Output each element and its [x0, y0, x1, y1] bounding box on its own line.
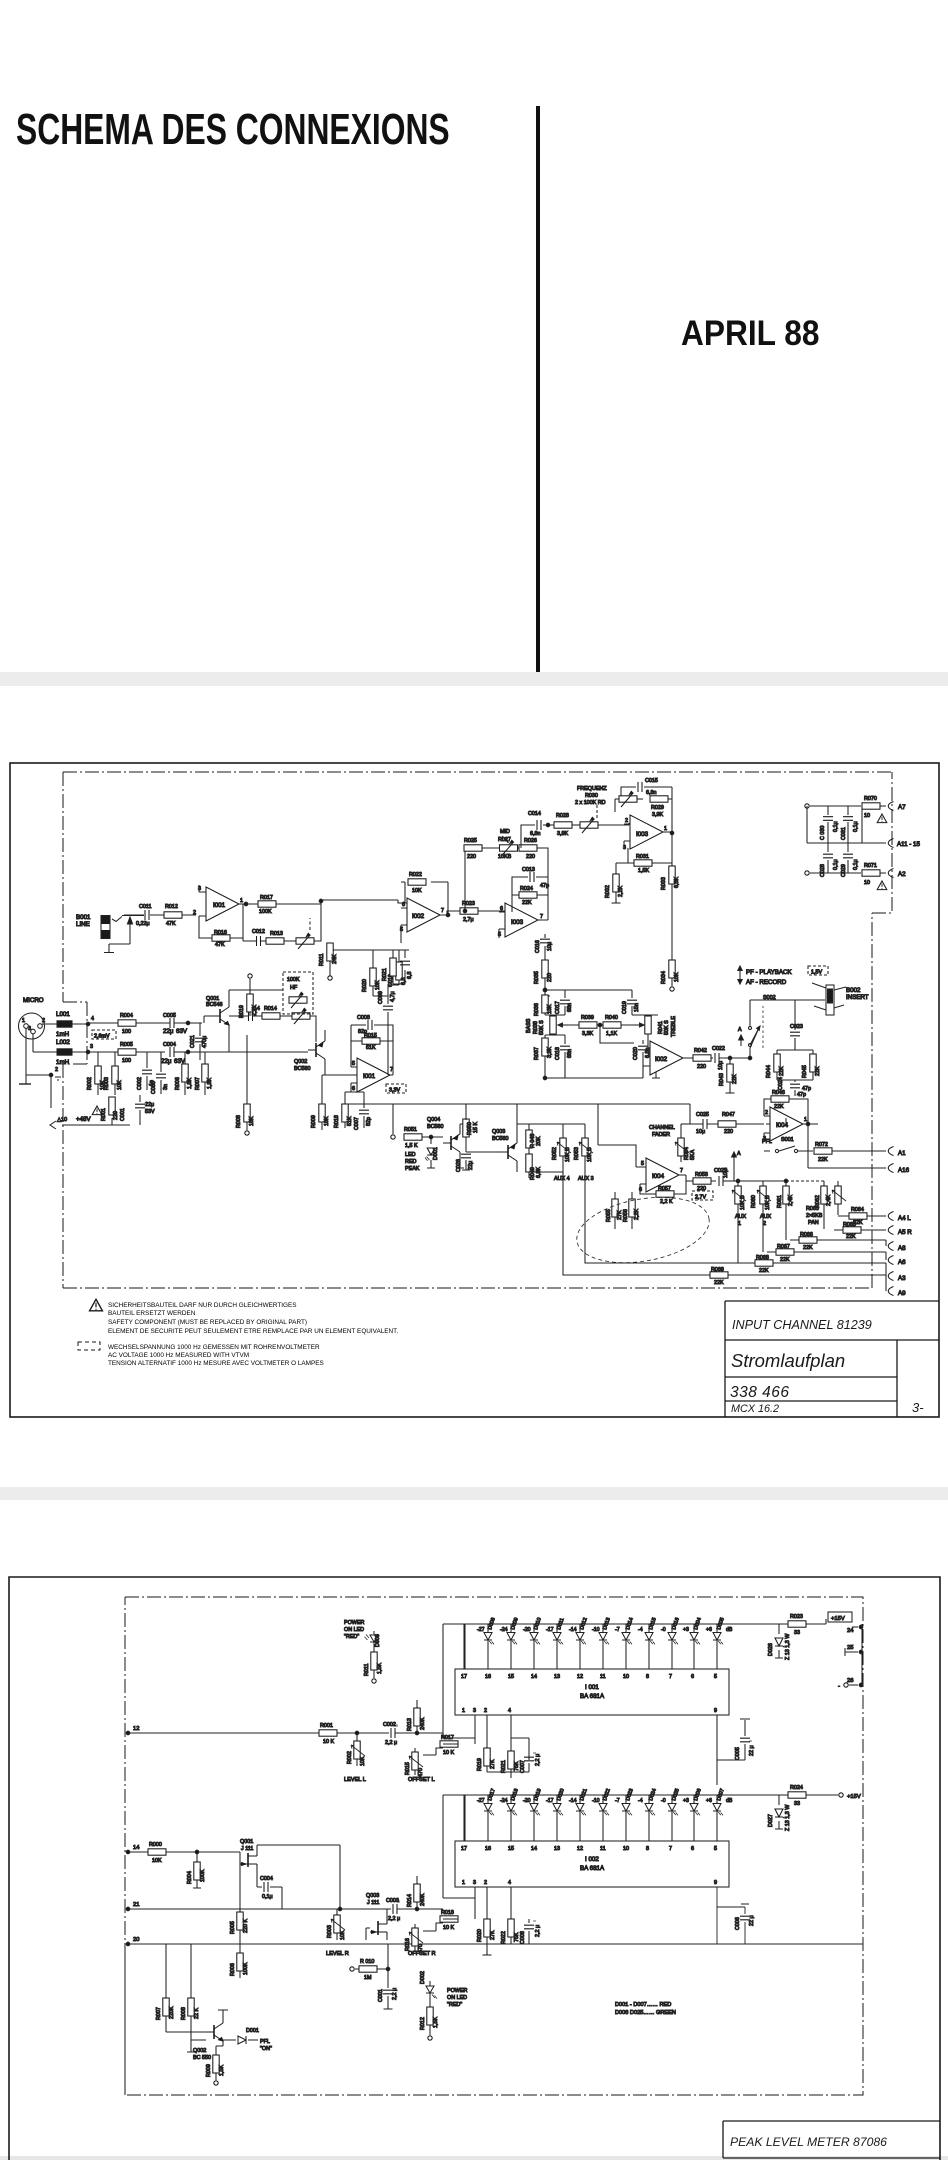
bass top node: [543, 988, 565, 996]
svg-text:R000: R000: [149, 1842, 162, 1848]
resistor R004 100K: [187, 1850, 206, 1888]
resistor R048 20K: [517, 1124, 542, 1154]
svg-text:10KB: 10KB: [498, 854, 512, 860]
svg-text:+15V: +15V: [847, 1794, 861, 1800]
svg-text:3-: 3-: [912, 1400, 924, 1415]
svg-text:"RED": "RED": [447, 2002, 462, 2008]
svg-text:6,8n: 6,8n: [646, 790, 657, 796]
left cluster row1: R017 10K: [440, 1735, 458, 1756]
svg-text:R070: R070: [864, 796, 877, 802]
svg-text:WECHSELSPANNUNG 1000 Hz GEME: WECHSELSPANNUNG 1000 Hz GEMESSEN MIT ROH…: [108, 1344, 320, 1351]
svg-text:-0: -0: [661, 1627, 666, 1633]
LED D019 -20dB: [523, 1788, 543, 1841]
svg-text:Q001: Q001: [240, 1839, 253, 1845]
wire R016 wiper: [423, 1923, 443, 1931]
capacitor C021 470u: [190, 1023, 208, 1060]
svg-text:6,8n: 6,8n: [530, 831, 541, 837]
svg-text:C022: C022: [712, 1046, 725, 1052]
svg-text:-20: -20: [523, 1627, 531, 1633]
svg-text:47K: 47K: [215, 942, 225, 948]
capacitor C024 47p: [777, 1077, 813, 1096]
svg-text:L001: L001: [56, 1011, 70, 1018]
svg-text:2,2 μ: 2,2 μ: [535, 1925, 541, 1937]
svg-text:R043: R043: [719, 1073, 725, 1086]
svg-text:R020: R020: [477, 1929, 483, 1942]
svg-text:D008 D025…… GREEN: D008 D025…… GREEN: [615, 2010, 676, 2016]
svg-text:J 111: J 111: [367, 1900, 379, 1906]
supply rail R071 A2: [805, 863, 906, 890]
LED D001 red peak: [425, 1135, 439, 1168]
svg-text:ELEMENT DE SECURITE PEUT S: ELEMENT DE SECURITE PEUT SEULEMENT ETRE …: [108, 1328, 398, 1335]
svg-text:+6: +6: [706, 1627, 712, 1633]
svg-text:R057: R057: [658, 1186, 671, 1192]
LED supply bus: [443, 1623, 757, 1625]
svg-text:C028: C028: [820, 864, 826, 877]
dashed annotation ellipse: [572, 1188, 715, 1272]
svg-text:10K: 10K: [412, 888, 422, 894]
svg-text:22μ: 22μ: [161, 1058, 172, 1065]
svg-text:Q003: Q003: [492, 1129, 505, 1135]
svg-text:POWER: POWER: [344, 1620, 364, 1626]
resistor R029 3.9K: [650, 787, 672, 833]
switch S002: [748, 995, 825, 1060]
resistor R058 220: [686, 1172, 716, 1192]
LED D007 +6dB: [706, 1788, 726, 1841]
svg-text:10: 10: [623, 1846, 629, 1852]
svg-text:R008: R008: [181, 2007, 187, 2020]
svg-text:47K: 47K: [166, 921, 176, 927]
svg-text:47p: 47p: [797, 1092, 806, 1098]
svg-text:R040: R040: [605, 1015, 618, 1021]
svg-text:I003: I003: [636, 831, 649, 838]
svg-text:22μ: 22μ: [468, 1161, 474, 1170]
svg-text:dB: dB: [726, 1627, 733, 1633]
A arrow: [738, 1027, 743, 1046]
svg-text:3,3K: 3,3K: [547, 1047, 553, 1058]
svg-text:Q002: Q002: [193, 2048, 206, 2054]
capacitor C005 22u 63V: [163, 1013, 188, 1035]
inductor L002 1mH: [33, 1034, 88, 1066]
svg-text:50K S: 50K S: [539, 1020, 545, 1035]
svg-text:SAFETY COMPONENT (MUST BE RE: SAFETY COMPONENT (MUST BE REPLACED BY OR…: [108, 1319, 307, 1326]
svg-text:Q002: Q002: [294, 1059, 307, 1065]
LED D021 -14dB: [569, 1788, 589, 1841]
svg-text:R003: R003: [327, 1925, 333, 1938]
svg-text:6: 6: [691, 1674, 694, 1680]
wire row1 pin stubs: [475, 1738, 529, 1760]
svg-text:22K: 22K: [818, 1157, 828, 1163]
svg-text:RED: RED: [405, 1159, 416, 1165]
feedback R015 51K: [351, 1033, 393, 1075]
svg-text:14: 14: [133, 1845, 140, 1851]
svg-text:-14: -14: [569, 1627, 577, 1633]
svg-text:R014: R014: [264, 1006, 277, 1012]
svg-text:2: 2: [625, 818, 628, 824]
node 3: [86, 1044, 93, 1054]
zener D027: [768, 1795, 791, 1831]
resistor R039 3.3K: [561, 1015, 603, 1037]
IC I 002 BA681A: [455, 1841, 729, 1887]
svg-text:3: 3: [623, 845, 626, 851]
svg-text:TENSION ALTERNATIF 1000 Hz: TENSION ALTERNATIF 1000 Hz MESURE AVEC V…: [108, 1360, 324, 1367]
svg-text:10K B: 10K B: [587, 1147, 593, 1162]
svg-text:BA 681A: BA 681A: [580, 1693, 605, 1700]
svg-text:22K: 22K: [803, 1245, 813, 1251]
svg-text:10μ: 10μ: [547, 942, 553, 951]
svg-text:C002: C002: [137, 1077, 143, 1090]
svg-text:7: 7: [680, 1168, 683, 1174]
gain trim C012 R013 R014: [243, 904, 321, 949]
svg-text:LED: LED: [405, 1152, 416, 1158]
svg-text:BAUTEIL ERSETZT WERDEN: BAUTEIL ERSETZT WERDEN: [108, 1310, 196, 1317]
svg-text:R 010: R 010: [360, 1959, 374, 1965]
svg-text:R002: R002: [87, 1077, 93, 1090]
LED D023 -7dB: [615, 1788, 635, 1841]
pot R053 AUX3: [574, 1124, 594, 1182]
svg-text:PF - PLAYBACK: PF - PLAYBACK: [746, 969, 792, 976]
resistor R001 10K: [319, 1723, 389, 1745]
svg-text:R072: R072: [815, 1142, 828, 1148]
svg-text:AC VOLTAGE 1000 Hz MEASURED: AC VOLTAGE 1000 Hz MEASURED WITH VTVM: [108, 1352, 249, 1359]
capacitor C011: [124, 904, 163, 927]
svg-text:C003: C003: [151, 1081, 157, 1094]
feedback R031 1.5K: [628, 832, 672, 874]
jack B002 INSERT: [812, 983, 869, 1015]
title block 2: [723, 2121, 940, 2158]
resistor R045 22K: [802, 1050, 821, 1080]
LED D016 -0dB: [661, 1617, 681, 1669]
svg-text:R046: R046: [772, 1090, 785, 1096]
svg-text:R006: R006: [230, 1963, 236, 1976]
svg-text:1,5K: 1,5K: [433, 2017, 439, 2028]
svg-text:10: 10: [864, 813, 870, 819]
wire aux feed bus: [517, 1123, 585, 1125]
svg-text:13K: 13K: [547, 1004, 553, 1014]
svg-text:C007: C007: [520, 1760, 526, 1773]
svg-text:1: 1: [240, 898, 243, 904]
svg-text:6: 6: [352, 1086, 355, 1092]
svg-text:FREQUENZ: FREQUENZ: [577, 786, 607, 792]
svg-text:1: 1: [462, 1708, 465, 1714]
svg-text:Q003: Q003: [366, 1893, 379, 1899]
svg-text:22K: 22K: [522, 900, 532, 906]
svg-text:R018: R018: [334, 1115, 340, 1128]
svg-text:INPUT CHANNEL 81239: INPUT CHANNEL 81239: [732, 1318, 872, 1332]
out A11-15: [862, 839, 920, 849]
svg-text:6,8K: 6,8K: [674, 877, 680, 888]
svg-text:L002: L002: [56, 1039, 70, 1046]
svg-text:C018: C018: [555, 1047, 561, 1060]
svg-text:22μ: 22μ: [145, 1102, 154, 1108]
svg-text:-7: -7: [615, 1627, 620, 1633]
svg-text:6,8: 6,8: [407, 972, 413, 980]
svg-text:11: 11: [600, 1674, 606, 1680]
svg-text:BC560: BC560: [492, 1136, 508, 1142]
svg-text:R065: R065: [843, 1222, 856, 1228]
PF PLAYBACK / AF RECORD: [738, 966, 793, 986]
svg-text:0,22μ: 0,22μ: [136, 921, 150, 927]
svg-text:Q004: Q004: [427, 1117, 440, 1123]
svg-text:5: 5: [400, 927, 403, 933]
svg-text:I004: I004: [776, 1122, 789, 1129]
wire fader top: [681, 1123, 690, 1125]
svg-text:0,1μ: 0,1μ: [833, 859, 839, 870]
pot PAN R063: [806, 1181, 846, 1226]
svg-text:C004: C004: [163, 1042, 176, 1048]
svg-text:2 x 100K RD: 2 x 100K RD: [575, 800, 606, 806]
input RC R021 C010b: [382, 934, 413, 984]
svg-text:51K: 51K: [366, 1045, 376, 1051]
svg-text:I 001: I 001: [585, 1684, 599, 1691]
LED D002 POWER ON: [420, 1971, 467, 2008]
svg-text:D002: D002: [420, 1971, 426, 1984]
capacitor C022 10u: [712, 1046, 750, 1070]
capacitor C023: [790, 1000, 803, 1050]
LED D022 -10dB: [592, 1788, 612, 1841]
CHANNEL FADER R054 5KA: [649, 1124, 696, 1162]
svg-text:24: 24: [847, 1628, 854, 1634]
svg-text:6: 6: [691, 1846, 694, 1852]
svg-text:B001: B001: [76, 914, 91, 921]
zener D026: [768, 1624, 791, 1660]
svg-text:1,8K: 1,8K: [187, 1078, 193, 1089]
svg-text:13: 13: [554, 1846, 560, 1852]
resistor R012 1.5K: [420, 1999, 439, 2040]
svg-text:20: 20: [133, 1937, 139, 1943]
svg-text:MICRO: MICRO: [23, 997, 44, 1004]
svg-text:100K: 100K: [287, 977, 300, 983]
svg-text:R019: R019: [477, 1758, 483, 1771]
svg-text:R007: R007: [156, 2007, 162, 2020]
LED D008 -27dB: [477, 1617, 497, 1669]
module dash-dot frame 2: [125, 1597, 863, 2095]
svg-text:1M: 1M: [364, 1975, 372, 1981]
resistor R007 220K: [156, 1944, 206, 2032]
pin9 wire + C006: [717, 1887, 755, 1944]
capacitor C002 1n: [137, 1052, 155, 1090]
svg-text:16: 16: [485, 1846, 491, 1852]
svg-text:R044: R044: [766, 1065, 772, 1078]
svg-text:470: 470: [418, 1768, 424, 1777]
POWER ON LED RED D003: [344, 1620, 381, 1647]
out A16: [808, 1124, 910, 1174]
SCHEMATIC 1 : INPUT CHANNEL: [0, 755, 948, 1425]
wire I002 out: [440, 911, 460, 915]
node 2 ground: [19, 1028, 61, 1108]
svg-text:220: 220: [724, 1129, 733, 1135]
svg-text:14: 14: [531, 1846, 537, 1852]
LED D017 -27dB: [477, 1788, 497, 1841]
pot R060 AUX2: [738, 1181, 771, 1227]
MID row R025 R027 R026: [464, 838, 548, 911]
svg-text:17: 17: [461, 1674, 467, 1680]
svg-text:22 K: 22 K: [194, 2008, 200, 2019]
svg-text:10 K: 10 K: [323, 1739, 334, 1745]
resistor R043 22K: [719, 1056, 738, 1093]
svg-text:-10: -10: [592, 1798, 600, 1804]
frequenz loop C015: [615, 778, 672, 812]
svg-text:A: A: [737, 1151, 741, 1157]
pot R016 470 OFFSET R: [405, 1924, 436, 1957]
svg-text:2,2 μ: 2,2 μ: [388, 1916, 400, 1922]
resistor R064 22K out A4 L: [838, 1207, 911, 1226]
svg-text:5: 5: [714, 1674, 717, 1680]
svg-text:2: 2: [484, 1708, 487, 1714]
node 4: [86, 1016, 94, 1026]
svg-text:C 030: C 030: [820, 826, 826, 840]
terminal 26: [838, 1678, 863, 1690]
svg-text:R045: R045: [802, 1065, 808, 1078]
resistor R020 27K: [477, 1919, 496, 1944]
svg-text:2: 2: [55, 1067, 58, 1073]
svg-text:-4: -4: [638, 1798, 643, 1804]
svg-text:-20: -20: [523, 1798, 531, 1804]
connector B001 LINE jack: [101, 916, 144, 953]
svg-text:13: 13: [554, 1674, 560, 1680]
svg-text:R019: R019: [239, 1005, 245, 1018]
svg-text:1: 1: [664, 826, 667, 832]
svg-text:12: 12: [133, 1726, 139, 1732]
op-amp I004a: [763, 1107, 807, 1142]
svg-text:8: 8: [646, 1846, 649, 1852]
pot R003 10K LEVEL R: [326, 1907, 349, 1957]
svg-text:R018: R018: [441, 1910, 454, 1916]
svg-text:D001 - D007…… RED: D001 - D007…… RED: [615, 2002, 671, 2008]
title block 1: [725, 1301, 939, 1417]
svg-text:240K: 240K: [420, 1717, 426, 1730]
APRIL 88: [681, 314, 819, 354]
input terminal 20: [126, 1937, 139, 1946]
pot R059 AUX1: [732, 1179, 746, 1227]
svg-text:2: 2: [42, 1018, 45, 1024]
svg-text:-7: -7: [615, 1798, 620, 1804]
svg-text:"ON": "ON": [260, 2046, 272, 2052]
svg-text:R047: R047: [722, 1112, 735, 1118]
svg-text:C001: C001: [120, 1108, 126, 1121]
svg-text:100K: 100K: [259, 909, 272, 915]
svg-text:R002: R002: [347, 1751, 353, 1764]
svg-text:5: 5: [714, 1846, 717, 1852]
svg-text:R071: R071: [864, 863, 877, 869]
svg-text:50K S: 50K S: [664, 1020, 670, 1035]
LED D009 -24dB: [500, 1617, 520, 1669]
svg-text:C009: C009: [378, 991, 384, 1004]
op-amp I003b: [498, 903, 543, 938]
svg-text:2,7μ: 2,7μ: [463, 917, 474, 923]
resistor R008 22K: [181, 1944, 206, 2052]
svg-text:15: 15: [508, 1674, 514, 1680]
IC pin numbers bottom: [462, 1708, 717, 1714]
transistor Q001 BC546: [188, 990, 250, 1052]
svg-text:R063: R063: [806, 1206, 819, 1212]
svg-text:J 111: J 111: [241, 1846, 253, 1852]
svg-text:R029: R029: [651, 805, 664, 811]
svg-text:82p: 82p: [366, 1117, 372, 1126]
svg-text:C005: C005: [735, 1747, 741, 1760]
svg-text:2,2K: 2,2K: [634, 1209, 640, 1220]
svg-text:D003: D003: [375, 1634, 381, 1647]
resistor R009 1.5K: [206, 2052, 225, 2085]
svg-text:A2: A2: [898, 871, 906, 878]
svg-text:C024: C024: [778, 1077, 784, 1090]
R018 51K C007 82p: [334, 1092, 353, 1128]
svg-text:A16: A16: [898, 1167, 910, 1174]
svg-text:10μ: 10μ: [718, 1061, 724, 1070]
svg-text:MCX 16.2: MCX 16.2: [731, 1403, 779, 1415]
svg-text:I001: I001: [213, 902, 226, 909]
svg-text:R030: R030: [585, 793, 598, 799]
svg-text:PAN: PAN: [808, 1220, 819, 1226]
coupling C024 R0xx pot: [229, 1006, 316, 1042]
svg-text:C011: C011: [139, 904, 152, 910]
resistor R020 10K: [362, 950, 381, 996]
svg-text:5: 5: [641, 1161, 644, 1167]
svg-text:220 K: 220 K: [243, 1919, 249, 1933]
capacitor C004 22u 63V: [161, 1042, 188, 1065]
svg-text:R025: R025: [464, 838, 477, 844]
IC pin numbers top: [461, 1846, 717, 1852]
svg-text:C020: C020: [633, 1047, 639, 1060]
svg-text:C006: C006: [735, 1917, 741, 1930]
resistor R009 18K: [311, 1075, 330, 1130]
svg-text:220: 220: [697, 1186, 706, 1192]
svg-text:C015: C015: [645, 778, 658, 784]
svg-text:R055: R055: [606, 1209, 612, 1222]
svg-text:+6: +6: [706, 1798, 712, 1804]
wire row2 pin stubs: [475, 1898, 511, 1919]
svg-text:R068: R068: [756, 1255, 769, 1261]
wire main lower bus: [345, 1104, 690, 1178]
svg-text:BC560: BC560: [427, 1124, 443, 1130]
svg-text:10K B: 10K B: [765, 1195, 771, 1210]
svg-text:I002: I002: [655, 1056, 668, 1063]
resistor R065 22K out A5 R: [824, 1212, 912, 1240]
SCHEMATIC 2 : PEAK LEVEL METER: [0, 1570, 948, 2160]
svg-text:10K: 10K: [117, 1080, 123, 1090]
svg-text:R021: R021: [501, 1760, 507, 1773]
wire record bus: [777, 1038, 813, 1050]
svg-text:R035: R035: [534, 971, 540, 984]
svg-text:C023: C023: [790, 1024, 803, 1030]
svg-text:2,2 μ: 2,2 μ: [535, 1754, 541, 1766]
svg-text:OFFSET R: OFFSET R: [408, 1951, 436, 1957]
svg-text:220: 220: [467, 854, 476, 860]
resistor R037 3.3K: [534, 1038, 553, 1078]
svg-text:1,1K: 1,1K: [606, 1031, 617, 1037]
LED D012 -14dB: [569, 1617, 589, 1669]
svg-text:LINE: LINE: [76, 921, 90, 928]
cap 22u 53V: [135, 1095, 155, 1125]
svg-text:+3: +3: [683, 1798, 689, 1804]
wire pin 17: [463, 1795, 465, 1841]
svg-text:R004: R004: [187, 1871, 193, 1884]
LED D013 -10dB: [592, 1617, 612, 1669]
decoupling caps C028 C029: [807, 843, 886, 877]
resistor R022 10K: [401, 872, 448, 915]
inductor L001 1mH: [42, 1011, 88, 1038]
resistor R049 6.8K: [526, 1154, 542, 1180]
svg-text:BC546: BC546: [206, 1002, 222, 1008]
svg-text:A3: A3: [898, 1275, 906, 1282]
op-amp I003a: [623, 815, 667, 851]
svg-text:C001: C001: [378, 1989, 384, 2002]
LED D025 -0dB: [661, 1788, 681, 1841]
svg-text:2,2K: 2,2K: [252, 1005, 258, 1016]
svg-text:22K: 22K: [732, 1074, 738, 1084]
safety warning triangle: [90, 1299, 103, 1311]
svg-text:7: 7: [669, 1846, 672, 1852]
svg-text:A1: A1: [898, 1150, 906, 1157]
